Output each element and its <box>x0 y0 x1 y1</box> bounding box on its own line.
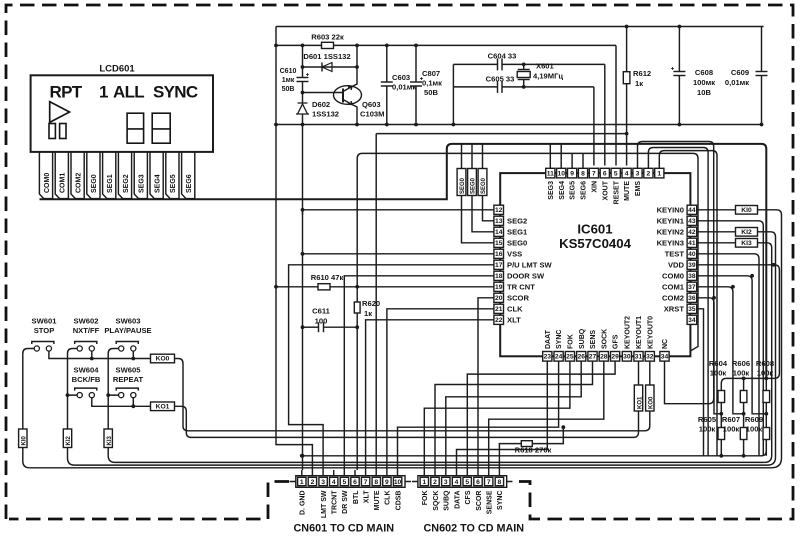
svg-text:5: 5 <box>614 170 618 177</box>
IC601 pin 11 SEG3 <box>546 168 555 199</box>
connector CN602 TO CD MAIN <box>418 476 524 535</box>
svg-text:C603: C603 <box>392 73 410 82</box>
svg-text:SENS: SENS <box>590 330 597 349</box>
IC601 pin 22 XLT <box>494 315 521 324</box>
svg-text:3: 3 <box>444 479 448 486</box>
svg-text:KO0: KO0 <box>156 356 170 363</box>
node net label box SEG0 <box>457 169 466 196</box>
svg-text:41: 41 <box>688 240 696 247</box>
svg-text:1: 1 <box>300 479 304 486</box>
wire bus L1 from LCD <box>452 144 766 379</box>
svg-text:R608: R608 <box>756 359 774 368</box>
svg-text:COM2: COM2 <box>662 293 684 302</box>
svg-text:RESET: RESET <box>613 180 620 204</box>
svg-text:32: 32 <box>646 354 654 361</box>
wire pin32 to box <box>649 361 651 385</box>
svg-text:KEYOUT0: KEYOUT0 <box>647 316 654 349</box>
svg-text:SEG3: SEG3 <box>139 174 146 193</box>
wire pin16 VSS to GND column <box>303 253 495 255</box>
svg-text:SW605: SW605 <box>116 365 142 374</box>
svg-text:30: 30 <box>623 354 631 361</box>
svg-text:18: 18 <box>495 273 503 280</box>
svg-text:XLT: XLT <box>507 315 521 324</box>
svg-text:36: 36 <box>688 295 696 302</box>
svg-text:D. GND: D. GND <box>300 491 307 516</box>
svg-text:TR CNT: TR CNT <box>507 282 535 291</box>
svg-text:35: 35 <box>688 306 696 313</box>
svg-text:XLT: XLT <box>363 490 370 503</box>
node net label box KI2 left <box>63 429 72 448</box>
svg-text:SCOR: SCOR <box>476 491 483 511</box>
svg-text:2: 2 <box>647 170 651 177</box>
svg-text:5: 5 <box>465 479 469 486</box>
node net label box KI0 right <box>736 206 758 215</box>
resistor R610 47k and TR CNT line <box>274 273 494 290</box>
svg-text:20: 20 <box>495 295 503 302</box>
svg-text:50В: 50В <box>424 88 438 97</box>
wire KEYIN3 pin41 through KI3 box <box>697 243 772 463</box>
svg-text:FOK: FOK <box>568 334 575 349</box>
svg-text:21: 21 <box>495 306 503 313</box>
LCD play triangle <box>50 102 70 123</box>
svg-text:SENSE: SENSE <box>486 490 493 514</box>
IC601 pin 35 XRST <box>664 304 697 313</box>
node GND rail bottom <box>302 440 767 456</box>
IC601 pin 30 KEYOUT2 <box>622 316 631 361</box>
svg-text:SW603: SW603 <box>116 316 141 325</box>
svg-text:R610 47к: R610 47к <box>311 273 344 282</box>
svg-text:SQCK: SQCK <box>433 491 440 511</box>
svg-text:3: 3 <box>636 170 640 177</box>
svg-text:43: 43 <box>688 218 696 225</box>
capacitor C603 <box>381 45 417 124</box>
svg-text:44: 44 <box>688 207 696 214</box>
IC601 pin 31 KEYOUT1 <box>634 316 643 361</box>
node net label box KO0 under pin32 <box>646 385 655 411</box>
svg-text:42: 42 <box>688 229 696 236</box>
IC601 pin 6 XOUT <box>600 168 609 200</box>
svg-text:LCD601: LCD601 <box>99 64 135 75</box>
resistor R620 1k on reset column <box>354 159 380 471</box>
IC601 pin 3 EMS <box>633 168 642 196</box>
svg-text:2: 2 <box>311 479 315 486</box>
wire CN601 stubs <box>290 481 412 483</box>
svg-text:1мк: 1мк <box>282 77 295 84</box>
IC601 pin 15 SEG0 <box>494 238 527 247</box>
svg-text:CFS: CFS <box>465 490 472 504</box>
svg-text:4: 4 <box>332 479 336 486</box>
capacitor C610 <box>280 45 309 93</box>
svg-text:LMT SW: LMT SW <box>321 490 328 518</box>
svg-text:SW601: SW601 <box>32 316 58 325</box>
svg-text:CLK: CLK <box>507 304 523 313</box>
svg-text:4,19МГц: 4,19МГц <box>533 72 563 81</box>
wire pin2 riser <box>648 148 708 456</box>
svg-text:R606: R606 <box>732 359 750 368</box>
svg-text:R603 22к: R603 22к <box>311 33 344 42</box>
resistor R607 100k <box>722 414 747 458</box>
svg-text:4: 4 <box>455 479 459 486</box>
svg-text:IC601: IC601 <box>577 222 612 237</box>
wire pins 11,10 risers to L1 <box>550 144 561 168</box>
svg-text:50В: 50В <box>282 86 295 93</box>
svg-text:SEG5: SEG5 <box>570 181 577 200</box>
svg-text:KO1: KO1 <box>637 396 643 409</box>
switch SW605 REPEAT <box>113 365 144 397</box>
IC601 pin 38 COM0 <box>662 271 697 280</box>
capacitor C605 <box>453 75 594 93</box>
resistor R606 100k <box>732 359 750 416</box>
svg-text:MUTE: MUTE <box>374 490 381 510</box>
svg-text:100к: 100к <box>710 369 727 378</box>
svg-text:6: 6 <box>353 479 357 486</box>
IC601 pin 43 KEYIN1 <box>657 216 697 225</box>
IC601 pin 34 <box>687 315 697 324</box>
node VDD pull-up rail <box>721 378 774 385</box>
svg-text:SYNC: SYNC <box>497 491 504 510</box>
svg-text:COM0: COM0 <box>44 173 51 193</box>
LCD 7-segment digit right <box>152 113 170 143</box>
wire KO0 to KEYOUT0 pin32 <box>175 359 650 431</box>
svg-text:KS57C0404: KS57C0404 <box>559 236 632 251</box>
wire SEG box to pin13 <box>483 196 495 221</box>
node net label box KI0 left <box>19 429 28 448</box>
resistor R612 <box>623 25 651 136</box>
svg-text:PLAY/PAUSE: PLAY/PAUSE <box>104 326 151 335</box>
svg-text:VDD: VDD <box>668 260 685 269</box>
svg-text:5: 5 <box>342 479 346 486</box>
crystal X601 4.19MHz <box>517 62 563 89</box>
svg-text:7: 7 <box>592 170 596 177</box>
IC601 pin 24 SYNC <box>554 330 563 362</box>
svg-text:SYNC: SYNC <box>556 330 563 349</box>
svg-text:7: 7 <box>487 479 491 486</box>
svg-text:15: 15 <box>495 240 503 247</box>
IC601 pin 23 DAAT <box>543 329 552 361</box>
svg-text:14: 14 <box>495 229 503 236</box>
svg-text:26: 26 <box>577 354 585 361</box>
svg-text:CDSB: CDSB <box>395 491 402 511</box>
resistor R603 <box>311 33 344 49</box>
svg-text:28: 28 <box>600 354 608 361</box>
svg-text:12: 12 <box>495 207 503 214</box>
svg-text:1: 1 <box>422 479 426 486</box>
wire CN602 stubs <box>412 481 513 483</box>
svg-text:D601 1SS132: D601 1SS132 <box>303 52 350 61</box>
svg-text:SW602: SW602 <box>74 316 99 325</box>
svg-text:27: 27 <box>589 354 597 361</box>
capacitor C611 100 <box>301 307 358 333</box>
svg-text:XIN: XIN <box>592 181 599 193</box>
svg-text:XRST: XRST <box>664 304 685 313</box>
svg-text:SEG4: SEG4 <box>154 174 161 193</box>
svg-text:8: 8 <box>581 170 585 177</box>
wire KI3 column from SW603/SW605 <box>108 349 118 463</box>
wire pin3 EMS riser <box>638 142 714 404</box>
svg-text:100к: 100к <box>723 425 740 434</box>
svg-text:19: 19 <box>495 284 503 291</box>
svg-text:22: 22 <box>495 317 503 324</box>
svg-text:SEG6: SEG6 <box>186 174 193 193</box>
wire pin17 P/U LMT SW to CN601 pin3 <box>289 265 494 470</box>
svg-text:KO0: KO0 <box>649 396 655 409</box>
svg-text:C103M: C103M <box>360 110 384 119</box>
svg-text:SEG2: SEG2 <box>507 216 527 225</box>
svg-text:KI0: KI0 <box>741 207 752 214</box>
LCD pin SEG2 <box>118 152 131 199</box>
wire XRST pin35 <box>697 309 704 456</box>
wire DAAT pin23 to DATA <box>457 361 548 470</box>
svg-text:1: 1 <box>99 83 108 102</box>
svg-text:BTL: BTL <box>353 490 360 504</box>
switch SW602 NXT/FF <box>73 316 100 351</box>
LCD pin SEG3 <box>134 152 147 199</box>
svg-text:C604 33: C604 33 <box>488 52 517 61</box>
svg-text:13: 13 <box>495 218 503 225</box>
wire left vertical rail x276 <box>276 27 312 471</box>
IC601 pin 12 <box>494 205 504 214</box>
wire FOK pin25 to FOK <box>424 361 570 470</box>
svg-text:CN601 TO CD MAIN: CN601 TO CD MAIN <box>294 523 395 535</box>
svg-text:C608: C608 <box>695 68 713 77</box>
LCD pin COM1 <box>55 152 68 199</box>
svg-text:SUBQ: SUBQ <box>444 490 451 511</box>
wire bus L2 <box>357 153 698 351</box>
switch SW604 BCK/FB <box>72 365 101 397</box>
svg-text:FOK: FOK <box>422 491 429 506</box>
svg-text:DOOR SW: DOOR SW <box>507 271 545 280</box>
svg-text:MUTE: MUTE <box>624 181 631 201</box>
wire pin18 DOOR SW to CN601 pin5 <box>344 276 494 470</box>
svg-text:C611: C611 <box>312 307 331 316</box>
svg-text:17: 17 <box>495 262 503 269</box>
LCD pin COM2 <box>71 152 84 199</box>
svg-text:C807: C807 <box>422 69 440 78</box>
IC601 pin 34 NC <box>660 339 669 361</box>
svg-text:EMS: EMS <box>635 181 642 197</box>
IC601 pin 20 SCOR <box>494 293 530 302</box>
svg-text:R620: R620 <box>362 299 380 308</box>
capacitor C608 <box>671 25 715 125</box>
svg-text:KI2: KI2 <box>741 229 752 236</box>
wire SUBQ pin26 to SUBQ <box>446 361 581 470</box>
IC601 pin 21 CLK <box>494 304 523 313</box>
wire crystal left leg <box>452 64 454 124</box>
svg-text:Q603: Q603 <box>362 100 381 109</box>
IC601 pin 17 P/U LMT SW <box>494 260 553 269</box>
svg-text:8: 8 <box>374 479 378 486</box>
wire SYNC pin24 to CDSB <box>398 361 559 470</box>
svg-text:9: 9 <box>385 479 389 486</box>
svg-text:8: 8 <box>498 479 502 486</box>
IC601 pin 10 SEG4 <box>557 168 566 199</box>
wire pin1 riser <box>659 151 717 456</box>
IC601 pin 5 RESET <box>611 168 620 204</box>
svg-text:10: 10 <box>557 170 565 177</box>
svg-text:25: 25 <box>566 354 574 361</box>
svg-text:2: 2 <box>433 479 437 486</box>
svg-text:34: 34 <box>688 317 696 324</box>
IC601 pin 19 TR CNT <box>494 282 535 291</box>
svg-text:SEG0: SEG0 <box>460 177 466 194</box>
svg-text:GFS: GFS <box>613 334 620 349</box>
IC601 pin 27 SENS <box>588 330 597 361</box>
IC601 pin 40 TEST <box>665 249 697 258</box>
svg-text:1к: 1к <box>364 309 372 318</box>
connector CN601 TO CD MAIN <box>294 476 406 535</box>
svg-text:C605 33: C605 33 <box>486 75 515 84</box>
wire KI2 rail to right side <box>75 464 768 466</box>
svg-text:SEG0: SEG0 <box>471 177 477 194</box>
svg-text:100к: 100к <box>699 425 716 434</box>
svg-text:KEYIN0: KEYIN0 <box>657 205 684 214</box>
svg-text:38: 38 <box>688 273 696 280</box>
svg-text:1SS132: 1SS132 <box>312 110 339 119</box>
svg-text:SEG1: SEG1 <box>507 227 528 236</box>
diode D602 1SS132 (zener) <box>296 93 339 125</box>
IC601 pin 29 GFS <box>611 334 620 361</box>
svg-text:0,01мк: 0,01мк <box>725 78 749 87</box>
wire CN601 pin risers <box>302 470 398 476</box>
svg-text:SEG6: SEG6 <box>581 181 588 200</box>
svg-text:11: 11 <box>547 170 554 177</box>
svg-text:40: 40 <box>688 251 696 258</box>
svg-text:10: 10 <box>394 479 402 486</box>
wire MUTE line y133.6 <box>376 134 626 470</box>
svg-text:KEYIN3: KEYIN3 <box>657 238 684 247</box>
node top supply rail <box>276 26 764 28</box>
IC601 pin 42 KEYIN2 <box>657 227 697 236</box>
svg-text:RPT: RPT <box>50 83 83 102</box>
svg-text:DAAT: DAAT <box>545 329 552 349</box>
svg-text:R604: R604 <box>709 359 728 368</box>
svg-text:SEG5: SEG5 <box>170 174 177 193</box>
svg-text:SEG3: SEG3 <box>548 181 555 200</box>
svg-text:SOCK: SOCK <box>601 329 608 349</box>
node net label box KI3 left <box>104 429 113 448</box>
svg-text:KEYOUT1: KEYOUT1 <box>636 316 643 349</box>
capacitor C807 <box>410 45 442 124</box>
svg-text:KEYIN1: KEYIN1 <box>657 216 685 225</box>
svg-text:KEYIN2: KEYIN2 <box>657 227 684 236</box>
svg-text:NC: NC <box>662 339 669 349</box>
svg-text:100к: 100к <box>757 369 774 378</box>
op-amp/microcontroller IC601 KS57C0404 body <box>500 173 690 356</box>
svg-text:SEG0: SEG0 <box>507 238 527 247</box>
wire SEG box to pin14 <box>472 196 494 232</box>
resistor R604 100k <box>709 359 728 416</box>
svg-text:D602: D602 <box>312 100 330 109</box>
IC601 pin 39 VDD <box>668 260 697 269</box>
wire LCD segment rail to top bus <box>40 144 453 199</box>
node net label box KI3 right <box>736 239 758 248</box>
IC601 pin 9 SEG5 <box>568 168 577 199</box>
wire KI2 column from SW602/SW604 <box>68 349 78 466</box>
svg-text:DR SW: DR SW <box>342 490 349 514</box>
transistor Q603 C103M <box>334 45 385 124</box>
svg-text:10В: 10В <box>697 88 711 97</box>
LCD pin COM0 <box>39 152 52 199</box>
svg-text:ALL: ALL <box>113 83 144 102</box>
wire COM2 pin36 <box>697 298 722 414</box>
svg-text:SEG4: SEG4 <box>559 181 566 200</box>
svg-text:P/U LMT SW: P/U LMT SW <box>507 260 553 269</box>
wire pin21 CLK to CN601 pin9 <box>387 309 494 470</box>
node net label box KO1 under pin31 <box>634 385 643 411</box>
svg-text:SEG1: SEG1 <box>107 174 114 193</box>
IC601 pin 32 KEYOUT0 <box>645 316 654 361</box>
LCD pin SEG0 <box>87 152 100 199</box>
IC601 pin 13 SEG2 <box>494 216 527 225</box>
capacitor C609 <box>725 27 768 125</box>
svg-text:KI0: KI0 <box>21 436 27 446</box>
wire KI0 rail to right side <box>30 467 772 469</box>
wire pin12 to GND column <box>303 210 495 215</box>
wire SOCK pin28 to SENSE <box>489 361 604 470</box>
node rail2 <box>276 44 616 46</box>
svg-text:KI3: KI3 <box>107 436 113 446</box>
svg-text:DATA: DATA <box>454 491 461 509</box>
LCD pin SEG5 <box>166 152 179 199</box>
IC601 pin 37 COM1 <box>662 282 697 291</box>
node junction dots bottom rail <box>300 454 304 458</box>
IC601 pin 41 KEYIN3 <box>657 238 697 247</box>
svg-text:23: 23 <box>544 354 552 361</box>
svg-text:TEST: TEST <box>665 249 685 258</box>
svg-text:R609: R609 <box>745 415 763 424</box>
capacitor C604 <box>453 52 604 71</box>
wire XIN riser <box>593 87 595 166</box>
svg-text:COM0: COM0 <box>662 271 684 280</box>
svg-text:R605: R605 <box>698 415 717 424</box>
svg-text:TRCNT: TRCNT <box>332 490 339 514</box>
IC601 pin 28 SOCK <box>599 329 608 361</box>
svg-text:BCK/FB: BCK/FB <box>72 375 101 384</box>
wire CN602 pin risers <box>424 470 499 476</box>
wire COM0 pin38 <box>697 276 767 414</box>
svg-text:3: 3 <box>321 479 325 486</box>
svg-text:SEG0: SEG0 <box>481 177 487 194</box>
wire KO1 row from switch contacts <box>92 398 151 407</box>
svg-text:CN602 TO CD MAIN: CN602 TO CD MAIN <box>424 523 525 535</box>
wire SENS pin27 to SQCK <box>435 361 593 470</box>
LCD pause bars <box>49 124 66 139</box>
svg-text:37: 37 <box>688 284 696 291</box>
svg-text:6: 6 <box>603 170 607 177</box>
LCD 7-segment digit left <box>127 113 144 143</box>
IC601 pin 2 <box>644 168 653 178</box>
wire SEG riser boxes drop from L1 <box>462 144 483 169</box>
IC601 pin 14 SEG1 <box>494 227 528 236</box>
LCD pin SEG1 <box>103 152 116 199</box>
IC601 pin 8 SEG6 <box>578 168 587 199</box>
node net label box KO0 <box>151 354 175 363</box>
diode D601 1SS132 <box>301 52 359 72</box>
svg-text:24: 24 <box>555 354 563 361</box>
resistor R618 270k on SYNC net <box>499 425 565 470</box>
wire GND column x302.5 (D.GND) <box>302 125 304 471</box>
svg-text:1: 1 <box>657 170 661 177</box>
resistor R605 100k <box>698 414 725 458</box>
svg-text:4: 4 <box>625 170 629 177</box>
svg-text:34: 34 <box>661 354 669 361</box>
wire pin20 SCOR to CN602 pin6 <box>478 298 494 470</box>
wire XOUT riser <box>604 64 606 165</box>
wire KO1 to KEYOUT1 pin31 <box>175 406 639 437</box>
IC601 pin 1 <box>655 168 664 178</box>
svg-text:100к: 100к <box>733 369 750 378</box>
IC601 pin 36 COM2 <box>662 293 697 302</box>
